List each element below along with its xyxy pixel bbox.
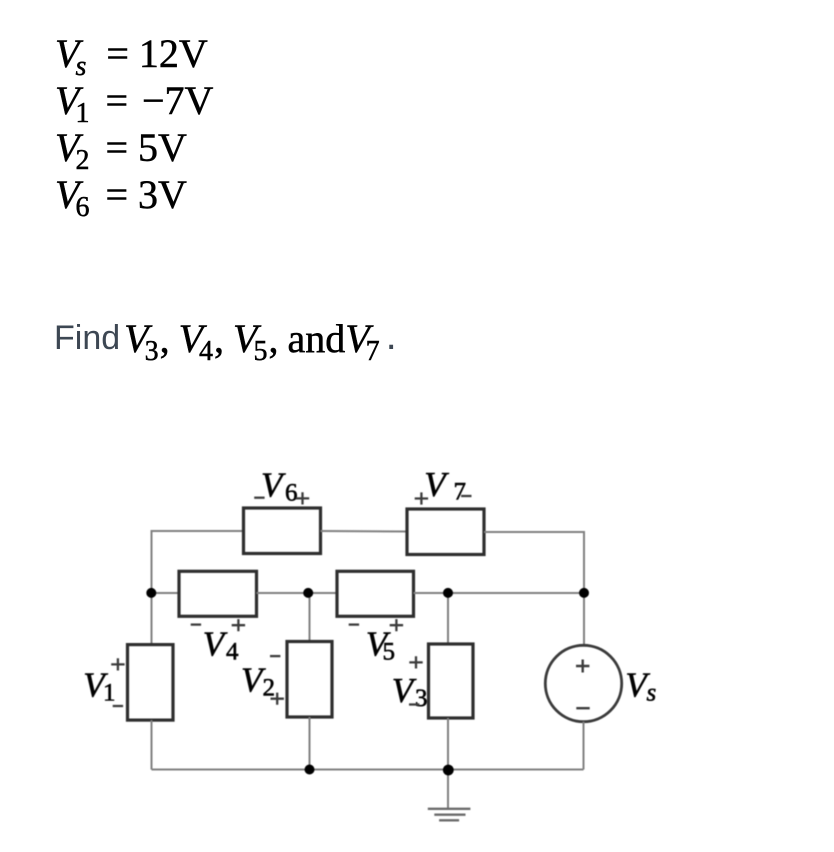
svg-text:V: V xyxy=(261,465,286,504)
math line V2 = 5V xyxy=(55,128,187,175)
label V2 plus xyxy=(271,693,284,705)
wire top rail left xyxy=(152,531,244,593)
label V1 plus xyxy=(111,658,124,670)
ground xyxy=(428,809,471,821)
label V3 plus xyxy=(409,656,422,668)
svg-text:3: 3 xyxy=(415,685,428,712)
label V4 minus xyxy=(191,623,201,625)
node B dot (mid, second rail) xyxy=(303,588,313,598)
label V6 plus xyxy=(296,492,309,504)
svg-text:4: 4 xyxy=(226,639,239,666)
svg-text:7: 7 xyxy=(454,479,467,506)
source Vs plus sign xyxy=(576,660,589,673)
wire top rail mid xyxy=(321,530,408,533)
math line V6 = 3V xyxy=(55,175,187,222)
node A dot (left, second rail) xyxy=(146,588,156,598)
math line Vs = 12V xyxy=(55,34,208,81)
element V5 xyxy=(337,571,414,616)
label V7 plus xyxy=(415,492,428,504)
svg-text:5: 5 xyxy=(383,639,396,666)
element V6 xyxy=(244,508,321,554)
svg-text:1: 1 xyxy=(103,680,116,707)
label V5 minus xyxy=(349,623,359,625)
label V3 minus xyxy=(409,703,419,705)
node D dot (far right, second rail) xyxy=(579,588,589,598)
wire bottom rail xyxy=(152,769,584,771)
node F dot (bottom rail at V3/ground) xyxy=(443,765,454,776)
math line V1 = -7V xyxy=(55,81,213,128)
wire second rail right xyxy=(414,592,585,594)
wire Vs lower xyxy=(583,722,585,770)
svg-text:s: s xyxy=(647,680,657,707)
label V2 minus xyxy=(270,655,280,657)
wire top rail right xyxy=(484,532,584,645)
element V2 xyxy=(287,642,332,718)
element V7 xyxy=(407,509,484,555)
label V6 minus xyxy=(254,497,264,499)
wire V2 branch lower xyxy=(309,717,311,770)
label V1 minus xyxy=(113,705,123,707)
wire ground stem xyxy=(447,770,449,809)
wire V3 branch upper xyxy=(447,593,449,644)
wire V1 branch upper xyxy=(151,593,153,645)
label V4 plus xyxy=(232,619,245,631)
svg-text:V: V xyxy=(203,625,228,664)
svg-text:2: 2 xyxy=(263,674,276,701)
wire second rail left xyxy=(152,592,180,594)
wire V3 branch lower xyxy=(447,718,449,770)
wire second rail mid xyxy=(257,592,338,594)
label V5 plus xyxy=(390,619,403,631)
node C dot (right, second rail) xyxy=(443,588,453,598)
element V1 xyxy=(128,645,174,721)
element V4 xyxy=(179,571,257,616)
source Vs circle xyxy=(545,645,621,721)
svg-text:6: 6 xyxy=(285,479,298,506)
source Vs minus sign xyxy=(576,707,589,709)
wire V1 branch lower xyxy=(151,720,153,769)
label V7 minus xyxy=(461,495,471,497)
node E dot (bottom rail at V2) xyxy=(305,765,315,775)
wire V2 branch upper xyxy=(309,593,311,642)
find line xyxy=(54,321,397,355)
element V3 xyxy=(429,644,474,718)
